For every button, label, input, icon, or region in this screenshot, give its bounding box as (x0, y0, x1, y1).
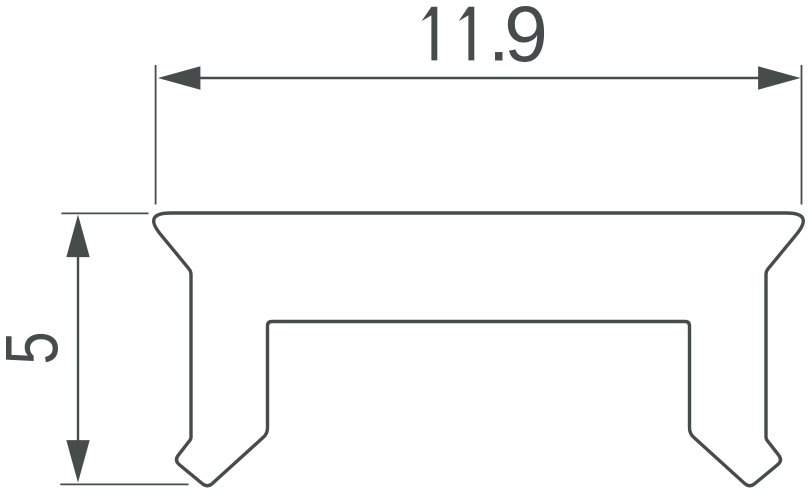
dimension 11.9: value label "11.9" (422, 0, 548, 78)
dimension 11.9: left extension line (155, 65, 157, 205)
dimension 5: bottom arrowhead (66, 440, 89, 483)
svg-text:9: 9 (504, 0, 548, 78)
dimension 11.9: right extension line (801, 65, 803, 205)
profile cross-section outline (154, 213, 804, 486)
dimension 5: dimension line (77, 256, 79, 441)
dimension 5: top arrowhead (66, 215, 89, 258)
dimension 11.9: dimension line (199, 77, 759, 79)
dimension 5: top extension line (61, 212, 148, 214)
dimension 11.9: left arrowhead (158, 66, 201, 89)
dimension 5: bottom extension line (60, 483, 188, 485)
svg-text:5: 5 (0, 331, 74, 364)
dimension 11.9: right arrowhead (758, 66, 801, 89)
